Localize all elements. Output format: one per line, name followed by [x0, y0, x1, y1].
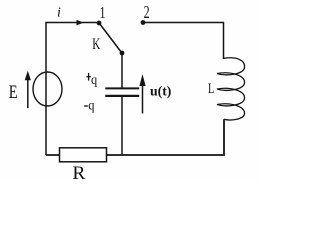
switch K blade	[100, 24, 122, 53]
svg-text:K: K	[92, 36, 100, 53]
svg-text:L: L	[208, 81, 214, 97]
resistor R body	[60, 148, 107, 162]
inductor L coil	[217, 58, 245, 120]
svg-text:q: q	[88, 98, 94, 113]
capacitor C top plate	[105, 87, 139, 89]
capacitor C bottom plate	[105, 95, 139, 97]
svg-text:i: i	[57, 6, 61, 21]
E arrow	[27, 77, 29, 108]
node 2	[141, 20, 146, 25]
svg-text:u(t): u(t)	[150, 84, 172, 99]
wire switch to capacitor	[121, 53, 123, 88]
wire top-left segment	[46, 23, 97, 156]
node 1	[97, 21, 102, 26]
voltage source E circle	[33, 72, 62, 106]
svg-text:2: 2	[144, 2, 150, 22]
wire inductor to bottom-right corner	[46, 119, 224, 155]
svg-text:R: R	[72, 163, 85, 182]
switch contact node	[120, 51, 125, 56]
wire capacitor to bottom	[121, 97, 123, 155]
label -q	[84, 105, 88, 107]
wire node2 to top-right	[143, 23, 224, 60]
svg-text:E: E	[9, 82, 18, 103]
svg-text:q: q	[91, 73, 97, 88]
current arrow i	[77, 20, 84, 26]
label +q	[86, 76, 90, 78]
svg-text:1: 1	[100, 3, 106, 22]
u(t) arrow	[142, 81, 144, 114]
